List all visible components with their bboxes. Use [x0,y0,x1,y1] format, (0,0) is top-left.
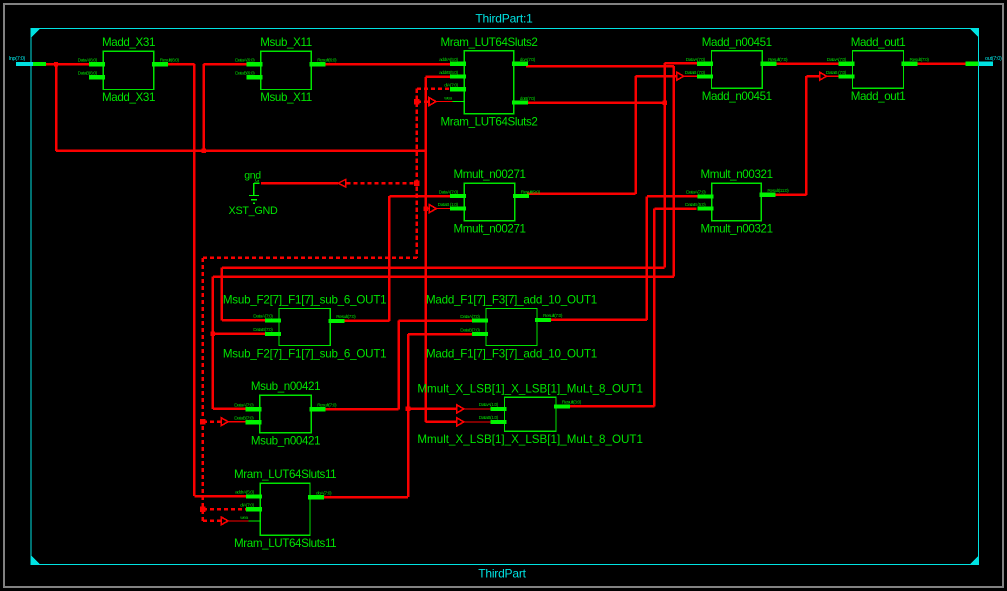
component Mmult_n00271 [438,168,541,235]
wire doA long horizontal [213,275,674,278]
wire gnd solid [261,182,338,184]
svg-text:Result(9:0): Result(9:0) [521,189,541,195]
svg-text:Msub_F2[7]_F1[7]_sub_6_OUT1: Msub_F2[7]_F1[7]_sub_6_OUT1 [223,294,387,307]
junction gnd to Mram11 diA [200,507,205,512]
output port out(7:0) [966,56,1002,66]
wire Mmult_X_LSB Result right [569,405,654,408]
svg-text:diA(7:0): diA(7:0) [240,502,254,508]
svg-text:addrA(5:0): addrA(5:0) [235,490,254,496]
svg-text:Madd_F1[7]_F3[7]_add_10_OUT1: Madd_F1[7]_F3[7]_add_10_OUT1 [426,294,597,307]
wire to Madd_n00451 DataB tap [636,75,677,78]
wire Inp up-branch to Msub_X11 [202,64,205,151]
svg-text:out(7:0): out(7:0) [985,56,1002,62]
junction gnd to Msub_n00421 DataB [200,419,205,424]
wire Mmult_n00321 Result right [774,194,806,197]
bus tap Mmult_X_LSB DataB [457,418,464,426]
wire gnd dashed to Mram11 diA [203,508,248,511]
svg-text:DataA(6:0): DataA(6:0) [78,57,98,63]
svg-text:Mram_LUT64Sluts11: Mram_LUT64Sluts11 [234,537,336,550]
wire Inp vertical main [424,77,427,422]
wire gnd dashed stub to wea tap [417,100,429,102]
wire Inp horizontal run [56,150,426,153]
wire to Mmult_n00321 DataB [654,207,696,210]
svg-text:Madd_n00451: Madd_n00451 [702,90,772,103]
wire Msub_F2 Result right [341,320,389,323]
svg-text:Result(3:0): Result(3:0) [562,400,582,406]
svg-text:Madd_out1: Madd_out1 [851,36,906,49]
wire tap to Madd_out1 DataB pin [827,75,840,77]
wire Msub_n00421 Result right [320,408,399,411]
component Madd_out1 [826,36,930,103]
wire Mram_LUT64Sluts2 doA right [526,65,674,68]
wire gnd dashed vertical [416,89,419,258]
svg-text:DataA(7:0): DataA(7:0) [460,314,480,320]
bus tap Mmult_X_LSB DataA [457,405,464,413]
svg-text:Madd_X31: Madd_X31 [102,36,155,49]
svg-text:DataB (7:0): DataB (7:0) [685,70,706,76]
wire doB long horizontal [222,266,665,269]
svg-text:Mram_LUT64Sluts2: Mram_LUT64Sluts2 [440,36,537,49]
svg-text:Madd_F1[7]_F3[7]_add_10_OUT1: Madd_F1[7]_F3[7]_add_10_OUT1 [426,347,597,360]
svg-text:Madd_X31: Madd_X31 [102,91,155,104]
wire to Msub_F2 DataA [222,319,268,322]
wire doB to Madd_n00451 DataA [665,62,698,65]
component Madd_X31 [78,36,180,104]
junction doB join [662,100,667,105]
svg-text:Mmult_n00271: Mmult_n00271 [453,168,525,181]
wire to Msub_n00421 DataA [213,408,248,411]
bus tap Madd_n00451 DataB [677,72,684,80]
wire Inp stub to DataB tap [426,208,430,210]
net tap Mram11 wea [221,517,228,525]
component Madd_F1[7]_F3[7]_add_10_OUT1 [426,294,597,361]
svg-text:Result(11:0): Result(11:0) [767,188,789,194]
junction Inp to Msub_X11 branch [201,149,206,154]
component Madd_n00451 [685,36,788,103]
svg-text:Madd_n00451: Madd_n00451 [702,36,772,49]
svg-text:wea: wea [444,96,452,101]
wire to Madd_F1 DataB [408,333,472,336]
svg-text:Msub_F2[7]_F1[7]_sub_6_OUT1: Msub_F2[7]_F1[7]_sub_6_OUT1 [223,347,387,360]
wire Madd_out1 Result to out port [915,63,967,66]
svg-text:Result(7:0): Result(7:0) [336,314,356,320]
wire Mmult_X_LSB Result up [653,209,656,407]
component Msub_X11 [235,36,337,104]
junction doA11 to Mmult_X_LSB DataA [406,407,411,412]
svg-text:Msub_n00421: Msub_n00421 [251,380,320,393]
net tap Mram2 wea [429,98,436,106]
svg-text:DataA(7:0): DataA(7:0) [686,190,706,196]
svg-text:DataB (7:0): DataB (7:0) [826,70,847,76]
sheet corner mark bottom-left [31,556,40,565]
svg-text:Madd_out1: Madd_out1 [851,90,906,103]
input port Inp(7:0) [9,56,46,66]
svg-text:Mmult_n00321: Mmult_n00321 [701,168,773,181]
svg-text:ThirdPart: ThirdPart [478,567,526,581]
wire tap to Msub_n00421 DataB pin [228,421,248,423]
component Mmult_X_LSB[1]_X_LSB[1]_MuLt_8_OUT1 [417,382,643,446]
svg-text:DataB(6:0): DataB(6:0) [78,70,98,76]
wire gnd dashed to vertical [347,182,417,185]
wire gnd dashed vertical left [202,258,205,521]
wire Inp to Mram_LUT64Sluts2 addrB [426,76,453,79]
wire doA branch vertical left [212,277,215,409]
component Mmult_n00321 [685,168,789,235]
wire tap to Mmult_X_LSB DataB pin [464,421,492,423]
component Msub_n00421 [234,380,337,448]
wire gnd dashed to Mram2 diA [417,87,452,90]
wire Msub_n00421 Result up [397,321,400,410]
svg-text:DataB(6:0): DataB(6:0) [235,70,255,76]
svg-text:Mram_LUT64Sluts11: Mram_LUT64Sluts11 [234,468,336,481]
junction node Inp split [54,62,58,66]
wire Madd_X31 Result long vertical [193,64,196,496]
svg-text:DataB(7:0): DataB(7:0) [234,415,254,421]
svg-text:DataB(7:0): DataB(7:0) [460,327,480,333]
junction Inp to Mmult_n00271 DataB [423,206,428,211]
wire Inp port to Madd_X31 DataA [44,63,92,66]
svg-text:Msub_n00421: Msub_n00421 [251,435,320,448]
wire Msub_X11 Result to Mram addrA [322,63,452,66]
wire Madd_n00451 Result to Madd_out1 DataA [774,63,840,66]
wire tap to Mram11 wea pin [228,520,249,522]
wire Mram_LUT64Sluts2 doB right [526,101,665,104]
svg-text:DataA(7:0): DataA(7:0) [234,403,254,409]
junction gnd dashed [414,181,419,186]
wire Madd_X31 Result right [165,63,194,66]
wire doB branch vertical left [221,268,224,321]
svg-text:Result(7:0): Result(7:0) [317,403,337,409]
ground symbol XST_GND [229,170,278,217]
svg-text:Mmult_X_LSB[1]_X_LSB[1]_MuLt_8: Mmult_X_LSB[1]_X_LSB[1]_MuLt_8_OUT1 [417,433,643,446]
svg-text:Mmult_n00321: Mmult_n00321 [701,223,773,236]
wire Result up to Madd_out1 [805,76,808,195]
svg-text:XST_GND: XST_GND [229,205,278,217]
sheet corner mark top-right [970,29,979,38]
svg-text:addrA(5:0): addrA(5:0) [439,57,458,63]
wire tap to Mram2 wea pin [436,101,453,103]
wire to Mmult_n00271 DataA [389,195,450,198]
svg-text:DataA(7:0): DataA(7:0) [253,314,273,320]
bus tap Mmult_n00271 DataB [429,205,436,213]
junction gnd to Mram2 wea [414,99,419,104]
svg-text:Result(7:0): Result(7:0) [543,313,563,319]
net tap Msub_n00421 DataB [221,418,228,426]
wire gnd dashed stub to DataB tap [203,421,221,423]
wire Madd_F1 Result right [549,319,647,322]
svg-text:doA(7:0): doA(7:0) [316,490,332,496]
wire doA11 vertical up [407,334,410,497]
wire Madd_F1 Result up [646,196,649,320]
svg-text:Mmult_n00271: Mmult_n00271 [453,223,525,236]
wire Mmult_n00271 Result right [527,193,636,196]
svg-text:Mram_LUT64Sluts2: Mram_LUT64Sluts2 [440,116,537,129]
svg-text:Msub_X11: Msub_X11 [260,36,312,49]
svg-text:Msub_X11: Msub_X11 [260,91,312,104]
svg-text:doA(7:0): doA(7:0) [520,57,536,63]
gnd net arrow [338,179,346,187]
wire Inp to Msub_X11 DataA [204,63,248,66]
wire Inp branch down [55,64,58,151]
wire tap to Mmult_n00271 DataB pin [436,208,450,210]
wire to Msub_F2 DataB [213,333,270,336]
svg-text:wea: wea [240,516,248,521]
svg-text:Inp(7:0): Inp(7:0) [9,56,26,62]
component Mram_LUT64Sluts11 [234,468,336,550]
wire Result up [634,76,637,194]
wire Mram_LUT64Sluts11 doA right [322,496,408,499]
svg-text:diA(7:0): diA(7:0) [444,82,458,88]
svg-text:DataB(7:0): DataB(7:0) [253,327,273,333]
wire doB vertical [663,63,666,267]
wire tap to Mmult_X_LSB DataA pin [464,408,492,410]
component Msub_F2[7]_F1[7]_sub_6_OUT1 [223,294,387,361]
svg-text:Result(7:0): Result(7:0) [910,57,930,63]
wire Msub_F2 Result up [388,196,391,321]
component Mram_LUT64Sluts2 [439,36,537,129]
svg-text:DataB(1:0): DataB(1:0) [479,415,499,421]
svg-text:addrB(5:0): addrB(5:0) [439,70,458,76]
wire doA vertical down [673,66,676,277]
wire to Madd_F1 DataA [399,319,472,322]
wire tap to Madd_n00451 DataB pin [684,75,698,77]
svg-text:ThirdPart:1: ThirdPart:1 [475,12,533,26]
svg-text:DataA(7:0): DataA(7:0) [827,57,847,63]
svg-text:DataA(6:0): DataA(6:0) [235,57,255,63]
wire to Madd_out1 DataB tap [806,75,819,78]
wire Inp to Mmult_X_LSB DataB tap [426,421,457,424]
wire gnd dashed horizontal low [203,257,417,260]
svg-text:DataA(1:0): DataA(1:0) [479,402,499,408]
wire gnd dashed to Mram11 wea tap [203,520,221,522]
svg-text:Result(6:0): Result(6:0) [317,57,337,63]
wire to Mram_LUT64Sluts11 addrA [194,495,248,498]
svg-text:Result(7:0): Result(7:0) [768,57,788,63]
svg-text:DataB (5:0): DataB (5:0) [685,202,706,208]
svg-text:Result(6:0): Result(6:0) [160,57,180,63]
svg-text:Mmult_X_LSB[1]_X_LSB[1]_MuLt_8: Mmult_X_LSB[1]_X_LSB[1]_MuLt_8_OUT1 [417,382,643,395]
svg-text:DataA(7:0): DataA(7:0) [686,57,706,63]
svg-text:DataA(7:0): DataA(7:0) [439,189,459,195]
svg-text:DataB (1:0): DataB (1:0) [438,202,459,208]
wire to Mmult_X_LSB DataA tap [408,408,457,411]
svg-text:doB(7:0): doB(7:0) [520,96,536,102]
sheet corner mark top-left [31,29,40,38]
sheet corner mark bottom-right [970,556,979,565]
wire to Mmult_n00321 DataA [647,195,698,198]
junction doA to Msub_F2 DataB [211,332,216,337]
bus tap Madd_out1 DataB [820,72,827,80]
